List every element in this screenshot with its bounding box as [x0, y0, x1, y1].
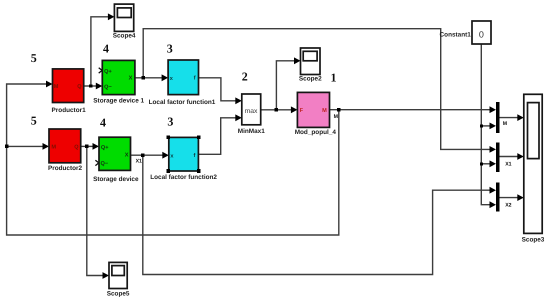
svg-text:Q: Q	[77, 84, 82, 90]
svg-text:Scope5: Scope5	[107, 291, 130, 298]
svg-text:Q+: Q+	[104, 69, 112, 75]
svg-text:X2: X2	[505, 202, 511, 208]
svg-text:Scope2: Scope2	[299, 76, 322, 83]
svg-text:Productor1: Productor1	[52, 107, 87, 114]
svg-text:X1: X1	[505, 162, 511, 168]
svg-text:f: f	[194, 75, 196, 82]
svg-text:M: M	[334, 114, 338, 120]
svg-text:3: 3	[167, 114, 173, 128]
svg-text:Constant1: Constant1	[440, 32, 472, 39]
svg-text:Productor2: Productor2	[48, 165, 83, 172]
svg-text:X1: X1	[136, 159, 142, 165]
svg-text:Q: Q	[74, 144, 79, 150]
svg-text:4: 4	[100, 115, 106, 129]
svg-text:Q−: Q−	[101, 161, 109, 167]
svg-text:max: max	[245, 108, 258, 115]
svg-text:Storage device 1: Storage device 1	[93, 98, 144, 105]
svg-text:0: 0	[479, 29, 484, 39]
svg-text:F: F	[300, 108, 304, 114]
svg-text:Scope4: Scope4	[113, 33, 136, 40]
svg-text:5: 5	[31, 114, 37, 128]
svg-text:2: 2	[242, 70, 248, 84]
svg-text:Q−: Q−	[104, 85, 112, 91]
svg-text:f: f	[194, 152, 196, 159]
svg-text:3: 3	[167, 41, 173, 55]
svg-text:Local factor function1: Local factor function1	[149, 99, 216, 106]
svg-text:X: X	[125, 153, 129, 159]
svg-text:M: M	[51, 144, 56, 150]
svg-text:M: M	[322, 108, 327, 114]
svg-text:X: X	[129, 76, 133, 82]
svg-text:M: M	[503, 121, 507, 127]
svg-text:Storage device: Storage device	[93, 176, 139, 183]
svg-text:4: 4	[103, 42, 109, 56]
svg-text:MinMax1: MinMax1	[238, 128, 265, 135]
svg-text:Scope3: Scope3	[522, 236, 545, 243]
svg-text:Local factor function2: Local factor function2	[150, 174, 217, 181]
svg-text:Q+: Q+	[101, 145, 109, 151]
svg-text:M: M	[54, 84, 59, 90]
svg-text:5: 5	[31, 51, 37, 65]
svg-text:Mod_popul_4: Mod_popul_4	[295, 129, 337, 136]
svg-text:1: 1	[331, 71, 337, 85]
